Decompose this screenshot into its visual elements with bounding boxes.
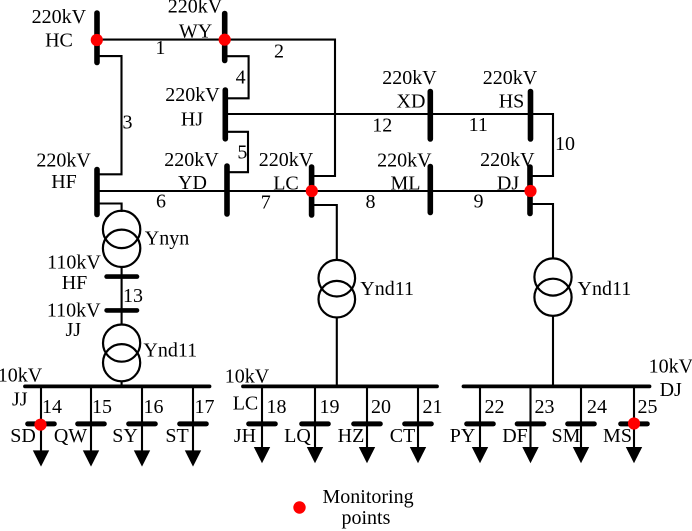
svg-text:points: points (342, 507, 391, 529)
svg-text:CT: CT (390, 425, 416, 447)
svg-text:220kV: 220kV (168, 0, 223, 18)
svg-text:Ynd11: Ynd11 (143, 339, 197, 361)
svg-text:JJ: JJ (66, 319, 82, 341)
svg-text:2: 2 (274, 41, 284, 63)
svg-text:21: 21 (423, 396, 443, 418)
svg-text:220kV: 220kV (483, 67, 538, 89)
svg-text:20: 20 (371, 396, 391, 418)
svg-text:6: 6 (156, 190, 166, 212)
svg-text:18: 18 (267, 396, 287, 418)
svg-text:XD: XD (397, 91, 426, 113)
svg-text:HS: HS (499, 91, 525, 113)
svg-text:JH: JH (234, 425, 256, 447)
svg-text:10kV: 10kV (0, 365, 43, 387)
svg-text:SD: SD (10, 425, 36, 447)
svg-text:17: 17 (195, 396, 215, 418)
svg-text:16: 16 (144, 396, 164, 418)
svg-text:ML: ML (391, 172, 421, 194)
svg-text:DJ: DJ (497, 173, 519, 195)
svg-text:15: 15 (92, 396, 112, 418)
svg-text:13: 13 (123, 285, 143, 307)
svg-text:YD: YD (178, 172, 207, 194)
svg-text:Ynd11: Ynd11 (360, 278, 414, 300)
svg-text:MS: MS (603, 425, 632, 447)
svg-text:22: 22 (485, 396, 505, 418)
svg-text:220kV: 220kV (259, 149, 314, 171)
svg-text:220kV: 220kV (164, 149, 219, 171)
svg-text:LC: LC (273, 173, 299, 195)
svg-text:Ynyn: Ynyn (145, 228, 189, 250)
svg-text:4: 4 (236, 66, 246, 88)
svg-text:9: 9 (474, 191, 484, 213)
svg-text:14: 14 (42, 396, 62, 418)
svg-text:PY: PY (450, 425, 476, 447)
svg-text:220kV: 220kV (377, 150, 432, 172)
svg-text:25: 25 (638, 396, 658, 418)
svg-text:220kV: 220kV (36, 150, 91, 172)
svg-text:JJ: JJ (12, 388, 28, 410)
svg-text:WY: WY (179, 20, 212, 42)
svg-text:ST: ST (165, 425, 188, 447)
svg-text:220kV: 220kV (480, 149, 535, 171)
svg-text:LC: LC (233, 393, 259, 415)
svg-text:DJ: DJ (660, 379, 682, 401)
svg-text:HF: HF (51, 171, 77, 193)
svg-text:HC: HC (45, 29, 73, 51)
svg-text:11: 11 (469, 114, 488, 136)
svg-text:3: 3 (123, 112, 133, 134)
svg-text:5: 5 (237, 142, 247, 164)
svg-text:Ynd11: Ynd11 (578, 278, 632, 300)
svg-text:QW: QW (54, 425, 87, 447)
svg-text:8: 8 (366, 191, 376, 213)
svg-text:12: 12 (372, 114, 392, 136)
svg-text:10kV: 10kV (225, 366, 270, 388)
svg-text:SM: SM (552, 425, 581, 447)
svg-text:110kV: 110kV (47, 252, 101, 274)
svg-text:220kV: 220kV (382, 67, 437, 89)
svg-text:1: 1 (155, 37, 165, 59)
svg-text:SY: SY (112, 425, 138, 447)
svg-text:10kV: 10kV (649, 356, 692, 378)
svg-text:HF: HF (62, 272, 88, 294)
svg-text:7: 7 (261, 191, 271, 213)
svg-text:HJ: HJ (181, 108, 203, 130)
svg-text:HZ: HZ (338, 425, 365, 447)
svg-text:220kV: 220kV (32, 6, 87, 28)
svg-text:LQ: LQ (284, 425, 311, 447)
svg-text:DF: DF (502, 425, 528, 447)
svg-text:Monitoring: Monitoring (323, 486, 414, 508)
svg-text:220kV: 220kV (165, 84, 220, 106)
svg-text:19: 19 (320, 396, 340, 418)
svg-text:24: 24 (587, 396, 607, 418)
svg-text:23: 23 (535, 396, 555, 418)
svg-text:10: 10 (555, 133, 575, 155)
